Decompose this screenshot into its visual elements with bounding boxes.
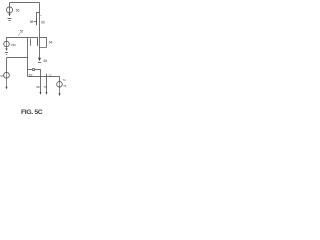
svg-text:56: 56 [16,9,20,13]
svg-text:52: 52 [20,30,24,34]
current source I1 (circle) [6,7,12,13]
svg-text:64: 64 [49,40,53,44]
ground below I1 [8,19,12,21]
wire main spine [39,3,41,59]
svg-text:74: 74 [62,78,66,82]
capacitor C1 plate right [30,39,32,46]
transistor Q2 gate bar [37,37,39,45]
source I2 arrowhead [58,93,60,96]
svg-text:V0: V0 [0,74,4,78]
wire bottom rail [28,76,60,78]
wire top rail [10,2,40,4]
svg-text:60: 60 [41,21,45,25]
transistor M1 gate bar [36,18,38,25]
current source I1 arrowhead [8,14,10,17]
current source I1 arrow stem [9,7,11,14]
svg-text:76: 76 [63,84,67,88]
source V1 arrow stem [6,41,8,49]
source I2 arrow stem [59,82,61,94]
svg-text:58: 58 [30,20,34,24]
svg-text:FIG. 5C: FIG. 5C [21,109,43,116]
svg-text:V50: V50 [11,43,17,47]
svg-text:66: 66 [44,59,48,63]
ground G2 filled [38,58,41,62]
label 52 leader [18,33,20,36]
terminal circle [32,68,34,70]
wire right drop [59,77,61,82]
svg-text:72: 72 [49,73,52,77]
voltage source V2 (circle) [4,72,10,78]
source V1 arrowhead [5,48,7,51]
leg arrow 2 stem [46,74,48,93]
wire cap branch down [27,47,29,77]
svg-text:70: 70 [44,85,48,89]
transistor M1 gate-drain tie [37,13,40,19]
leg arrow 2 head [46,92,48,95]
source V2 arrow stem [6,73,8,88]
leg arrow 1 head [40,92,42,95]
current source I2 (circle) [57,82,63,88]
wire output branch right [35,70,41,77]
wire output branch [28,69,33,71]
capacitor C1 plate left [27,38,29,48]
ground below V1 [5,53,8,55]
wire mid rail [7,57,28,59]
wire drop from rail to current source I1 [9,3,11,7]
svg-text:68: 68 [36,85,40,89]
ground G2 bar [38,62,41,64]
label 60 leader tick [40,15,42,17]
source V2 arrowhead [5,87,7,90]
wire left drop to V2 [6,58,8,73]
leg arrow 1 stem [40,77,42,93]
transistor M1 gate lead [34,21,37,23]
svg-text:62: 62 [29,73,33,77]
voltage source V1 (circle) [4,41,10,47]
wire gate node horizontal [7,38,38,42]
transistor Q2 body box [40,38,47,48]
